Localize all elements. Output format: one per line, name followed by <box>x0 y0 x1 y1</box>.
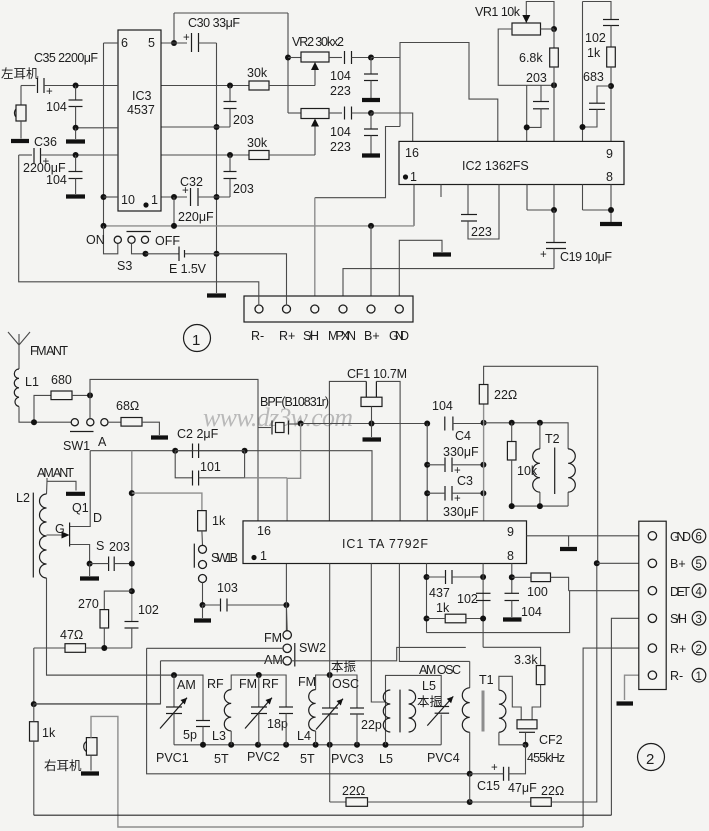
battery E 1.5V <box>146 253 180 255</box>
svg-text:B+: B+ <box>670 557 686 571</box>
capacitor C32 220uF <box>190 188 192 206</box>
switch S3 <box>104 226 118 254</box>
wire IC2 pin to B+ rail <box>413 185 415 226</box>
svg-text:2: 2 <box>646 751 654 768</box>
IC1 TA7792F <box>243 521 527 564</box>
IC2 1362FS <box>399 141 624 184</box>
capacitor 223 under IC2 <box>467 185 469 215</box>
svg-text:220μF: 220μF <box>178 210 214 224</box>
wire S lead <box>70 545 90 564</box>
svg-text:C4: C4 <box>455 429 471 443</box>
wire column x483.4 <box>483 404 485 521</box>
wire AGC bus / C15 row <box>147 648 470 774</box>
svg-text:B+: B+ <box>364 329 380 343</box>
wire C32 row y197 <box>161 196 187 198</box>
svg-text:S/H: S/H <box>303 329 319 343</box>
wire D lead <box>70 451 91 527</box>
connector strip 2 <box>639 521 666 689</box>
inductor L4 <box>309 690 316 731</box>
resistor 1k (bottom left) <box>30 722 39 741</box>
svg-text:L5: L5 <box>422 679 436 693</box>
svg-text:103: 103 <box>217 581 238 595</box>
resistor 1k <box>610 26 612 48</box>
wire IC1 pin to SW2 FM <box>285 564 287 632</box>
resistor 10k <box>511 423 513 442</box>
svg-text:Q1: Q1 <box>72 501 89 515</box>
svg-text:IC2 1362FS: IC2 1362FS <box>462 159 529 173</box>
svg-text:+: + <box>491 762 498 774</box>
wire column x427 with C4/C3 <box>426 424 428 521</box>
capacitor 223 to ground (lower) <box>370 113 372 129</box>
svg-text:SW1B: SW1B <box>211 551 238 565</box>
wire IC pin to L5 <box>371 564 386 703</box>
ceramic filter CF2 455kHz <box>499 676 521 720</box>
potentiometer VR2a <box>301 52 329 62</box>
svg-text:203: 203 <box>233 182 254 196</box>
svg-text:S/H: S/H <box>670 612 687 626</box>
svg-text:FM: FM <box>298 675 316 689</box>
svg-text:CF1 10.7M: CF1 10.7M <box>347 367 407 381</box>
ground <box>560 547 577 551</box>
wire pin9 to GND terminal with ground <box>527 535 649 537</box>
svg-text:203: 203 <box>109 540 130 554</box>
IC3 box <box>118 30 161 211</box>
svg-text:GND: GND <box>389 329 409 343</box>
wire row y155 <box>161 154 249 156</box>
svg-text:9: 9 <box>606 147 613 161</box>
svg-text:104: 104 <box>46 173 67 187</box>
svg-text:1k: 1k <box>212 514 226 528</box>
ground <box>503 617 522 621</box>
capacitor 101 (parallel) <box>175 451 192 478</box>
wire jog down to S/H <box>315 127 400 198</box>
variable capacitor PVC3 <box>329 675 331 708</box>
wire IF transformer row <box>484 423 568 449</box>
svg-text:6: 6 <box>121 36 128 50</box>
ground <box>433 252 451 256</box>
svg-text:330μF: 330μF <box>443 445 479 459</box>
capacitor 104 (left lower) <box>75 155 77 172</box>
svg-text:223: 223 <box>330 84 351 98</box>
capacitor 437 loop <box>426 564 428 633</box>
svg-text:左耳机: 左耳机 <box>1 66 39 81</box>
ground under S <box>89 564 91 576</box>
svg-text:S3: S3 <box>117 259 132 273</box>
resistor 30k (lower) <box>249 151 269 160</box>
svg-text:+: + <box>540 249 547 261</box>
svg-text:R-: R- <box>251 329 264 343</box>
svg-text:5: 5 <box>148 36 155 50</box>
svg-text:1k: 1k <box>587 46 601 60</box>
svg-text:30k: 30k <box>247 66 268 80</box>
svg-text:104: 104 <box>330 125 351 139</box>
svg-text:C2 2μF: C2 2μF <box>177 427 219 441</box>
wire bottom rail S/H <box>34 814 612 816</box>
wire pin8 to ground <box>582 185 584 211</box>
svg-text:AM: AM <box>177 678 196 692</box>
svg-text:102: 102 <box>585 31 606 45</box>
svg-text:104: 104 <box>432 399 453 413</box>
svg-text:2: 2 <box>696 644 702 656</box>
wire 3.3k feed <box>483 647 540 665</box>
inductor L2 with core <box>32 493 34 578</box>
svg-text:AM ANT: AM ANT <box>37 466 74 480</box>
svg-text:R-: R- <box>670 669 683 683</box>
wire battery column x103.5 <box>103 43 105 226</box>
svg-text:16: 16 <box>257 524 271 538</box>
svg-text:683: 683 <box>583 70 604 84</box>
capacitor 683 <box>597 86 611 103</box>
inductor L5 pair <box>383 690 390 732</box>
resistor 6.8k <box>553 29 555 48</box>
svg-text:OFF: OFF <box>155 234 180 248</box>
VR2a output: capacitor 104 <box>329 57 342 59</box>
svg-text:IC3: IC3 <box>132 89 152 103</box>
wire SW2 mid to AGC bus <box>147 647 283 649</box>
svg-text:680: 680 <box>51 373 72 387</box>
svg-text:30k: 30k <box>247 136 268 150</box>
wire R+ from battery node <box>217 254 287 306</box>
wire VR2 feed column x288 <box>287 13 289 113</box>
svg-text:MPXIN: MPXIN <box>328 329 356 343</box>
wire pin column x526.7 <box>526 85 528 141</box>
svg-text:C30 33μF: C30 33μF <box>188 16 240 30</box>
svg-text:22Ω: 22Ω <box>342 784 365 798</box>
svg-text:223: 223 <box>330 140 351 154</box>
svg-text:T1: T1 <box>479 673 494 687</box>
svg-text:5T: 5T <box>214 752 229 766</box>
svg-text:L5: L5 <box>379 752 393 766</box>
svg-text:本振: 本振 <box>331 660 357 674</box>
wire GND terminal to ground <box>399 240 442 305</box>
svg-text:DET: DET <box>670 585 690 599</box>
svg-text:C36: C36 <box>34 135 57 149</box>
svg-text:C32: C32 <box>180 175 203 189</box>
svg-text:R+: R+ <box>279 329 295 343</box>
svg-text:5T: 5T <box>300 752 315 766</box>
svg-text:104: 104 <box>521 605 542 619</box>
svg-text:22Ω: 22Ω <box>541 784 564 798</box>
resistor 1k (to SW1B) <box>198 511 207 531</box>
svg-text:IC1 TA 7792F: IC1 TA 7792F <box>342 537 428 551</box>
wire row y127 <box>161 126 230 128</box>
svg-text:104: 104 <box>46 100 67 114</box>
svg-text:1k: 1k <box>436 601 450 615</box>
svg-text:104: 104 <box>330 69 351 83</box>
svg-text:3.3k: 3.3k <box>514 653 538 667</box>
svg-text:BPF(B10831r): BPF(B10831r) <box>260 395 329 409</box>
switch SW2 <box>285 605 288 631</box>
resistor 100 <box>511 564 513 594</box>
stub NC pin <box>440 185 442 198</box>
svg-text:6: 6 <box>696 532 702 544</box>
wire R+ terminal line <box>583 648 648 827</box>
VR2b output: capacitor 104 <box>329 112 342 114</box>
wire S/H terminal line <box>611 618 648 815</box>
svg-text:1: 1 <box>151 193 158 207</box>
svg-text:SW2: SW2 <box>299 641 326 655</box>
ground <box>151 435 168 439</box>
capacitor 203 (upper right of IC3) <box>229 86 231 102</box>
ground below battery column <box>207 293 226 297</box>
ground <box>617 701 634 705</box>
wire IC3 right row y85 <box>161 85 249 87</box>
svg-text:FM: FM <box>264 631 282 645</box>
svg-text:S: S <box>96 539 104 553</box>
svg-text:CF2: CF2 <box>539 733 563 747</box>
svg-text:+: + <box>183 32 190 44</box>
svg-text:1: 1 <box>696 671 702 683</box>
wire earphone to R+ rail <box>91 716 583 827</box>
svg-text:RF: RF <box>207 677 224 691</box>
svg-text:3: 3 <box>696 614 702 626</box>
wire x174 pin1 to rail <box>173 197 175 226</box>
wire y493 to 1k <box>132 493 202 511</box>
wire top loop C30 to VR2 column <box>174 12 288 14</box>
svg-text:+: + <box>454 493 461 505</box>
wire PVC1 top node <box>46 675 203 720</box>
wire MPXIN to C19 <box>343 269 554 306</box>
wire SW2 AM to box top bus <box>161 660 284 662</box>
svg-text:101: 101 <box>200 460 221 474</box>
svg-text:100: 100 <box>527 585 548 599</box>
svg-text:T2: T2 <box>545 432 560 446</box>
capacitor 203 (lower right of IC3) <box>229 155 231 172</box>
svg-text:+: + <box>46 86 53 98</box>
wire DET to terminal <box>569 590 649 592</box>
svg-text:437: 437 <box>429 586 450 600</box>
inductor L3 <box>224 690 231 731</box>
svg-text:E 1.5V: E 1.5V <box>169 262 207 276</box>
wire IC3 left pin rows <box>104 42 119 44</box>
wire L2 bottom to PVC1 <box>47 578 175 675</box>
svg-text:OSC: OSC <box>332 677 359 691</box>
switch SW1B <box>201 531 204 545</box>
connector strip 1 <box>244 296 413 322</box>
switch SW1 <box>71 419 78 426</box>
ground under SW1B <box>202 605 204 618</box>
svg-text:16: 16 <box>405 146 419 160</box>
svg-text:GND: GND <box>670 530 691 544</box>
svg-text:FM: FM <box>239 677 257 691</box>
svg-text:PVC2: PVC2 <box>247 750 280 764</box>
svg-text:SW1: SW1 <box>63 439 90 453</box>
svg-text:270: 270 <box>78 597 99 611</box>
svg-text:68Ω: 68Ω <box>116 399 139 413</box>
wire osc node to 22 ohm row <box>329 745 331 802</box>
resistor 30k (upper) <box>249 81 269 90</box>
wire BPF/CF1 ground row <box>301 423 428 425</box>
svg-text:1k: 1k <box>42 726 56 740</box>
svg-text:22Ω: 22Ω <box>494 388 517 402</box>
svg-text:5p: 5p <box>183 728 197 742</box>
svg-text:4537: 4537 <box>127 103 155 117</box>
svg-text:PVC1: PVC1 <box>156 751 189 765</box>
wire 101 row to BPF drop <box>245 477 288 479</box>
node marker circle 2 <box>638 744 665 771</box>
svg-text:8: 8 <box>507 549 514 563</box>
svg-text:AM: AM <box>264 653 283 667</box>
svg-text:6.8k: 6.8k <box>519 51 543 65</box>
svg-text:R+: R+ <box>670 642 686 656</box>
svg-text:VR1 10k: VR1 10k <box>475 5 521 19</box>
svg-text:ON: ON <box>86 233 105 247</box>
svg-text:330μF: 330μF <box>443 505 479 519</box>
ground <box>75 128 77 139</box>
capacitor 104 (left upper) <box>75 86 77 101</box>
svg-text:D: D <box>93 511 102 525</box>
svg-text:L4: L4 <box>297 729 311 743</box>
wire IC3 pin5 row <box>161 42 187 44</box>
wire B+ supply column <box>597 366 599 563</box>
svg-text:223: 223 <box>471 225 492 239</box>
wire output1 to IC2 pin (over the top) <box>371 57 400 59</box>
svg-text:L2: L2 <box>16 491 30 505</box>
svg-text:L3: L3 <box>212 729 226 743</box>
wire FM RF block top <box>231 675 286 707</box>
svg-text:455kHz: 455kHz <box>527 751 565 765</box>
ground under CF1 <box>371 424 373 438</box>
svg-text:22p: 22p <box>361 718 382 732</box>
svg-text:C35 2200μF: C35 2200μF <box>34 51 98 65</box>
svg-text:C15: C15 <box>477 779 500 793</box>
wire D node row y450.7 <box>90 451 372 521</box>
capacitor C30 33uF <box>191 33 193 52</box>
svg-text:FM ANT: FM ANT <box>30 344 68 358</box>
svg-text:1: 1 <box>410 170 417 184</box>
node marker circle 1 <box>184 325 211 352</box>
wire pin to T1 primary <box>399 564 469 662</box>
svg-text:5: 5 <box>696 559 702 571</box>
svg-text:47μF: 47μF <box>508 781 537 795</box>
svg-text:4: 4 <box>696 587 703 599</box>
wire PVC bottom row <box>174 744 441 746</box>
capacitor 203 (VR1 filter) <box>540 85 542 101</box>
svg-text:203: 203 <box>233 113 254 127</box>
svg-text:VR2 30kx2: VR2 30kx2 <box>292 35 344 49</box>
wire R- terminal to ground <box>625 675 649 700</box>
wire L1 bottom row <box>19 407 71 423</box>
svg-text:1: 1 <box>192 332 200 349</box>
svg-text:47Ω: 47Ω <box>60 628 83 642</box>
svg-text:10: 10 <box>121 193 135 207</box>
wire DET row <box>427 591 570 633</box>
ground <box>11 139 29 143</box>
ground <box>66 194 85 198</box>
svg-text:102: 102 <box>457 592 478 606</box>
wire to IC2 top pin <box>553 85 555 141</box>
svg-text:18p: 18p <box>267 717 288 731</box>
node pin5 junction <box>171 40 177 46</box>
ground <box>362 153 380 157</box>
svg-text:8: 8 <box>606 170 613 184</box>
wire BPF out to IC1 (jog) <box>287 424 301 521</box>
wire column x131.8 (AGC) <box>131 451 133 622</box>
svg-text:L1: L1 <box>25 375 39 389</box>
potentiometer VR2b <box>301 109 329 119</box>
svg-text:203: 203 <box>526 71 547 85</box>
ground <box>600 222 622 226</box>
wire R- loop left side <box>19 155 259 306</box>
capacitor C19 10uF <box>526 185 528 211</box>
wire FM OSC block top <box>316 675 357 708</box>
svg-text:102: 102 <box>138 603 159 617</box>
wire S/H column to connector <box>314 198 316 306</box>
variable capacitor PVC4 <box>435 706 450 708</box>
svg-text:A: A <box>98 435 107 449</box>
ground <box>362 98 380 102</box>
inductor L1 <box>14 369 19 407</box>
capacitor 223 to ground (upper) <box>370 58 372 75</box>
svg-text:C3: C3 <box>457 474 473 488</box>
antenna FM ANT <box>8 332 30 345</box>
wire FM line up-over <box>90 379 258 521</box>
svg-text:PVC3: PVC3 <box>331 752 364 766</box>
wire column x582.5 <box>582 2 584 142</box>
svg-text:9: 9 <box>507 525 514 539</box>
svg-text:1: 1 <box>260 549 267 563</box>
wire output2 to IC2 pin16 <box>371 113 413 141</box>
wire column x216 <box>216 43 218 293</box>
svg-text:RF: RF <box>262 677 279 691</box>
variable capacitor PVC1 <box>173 675 175 707</box>
variable capacitor PVC2 <box>258 675 260 707</box>
svg-text:C19 10μF: C19 10μF <box>560 250 612 264</box>
capacitor 102 chain top right <box>583 2 612 20</box>
wire B+ to connector <box>370 226 372 306</box>
svg-text:右耳机: 右耳机 <box>44 758 82 773</box>
wire AM node column <box>33 648 35 704</box>
svg-text:PVC4: PVC4 <box>427 751 460 765</box>
wire B+ rail (battery positive) <box>104 225 415 227</box>
